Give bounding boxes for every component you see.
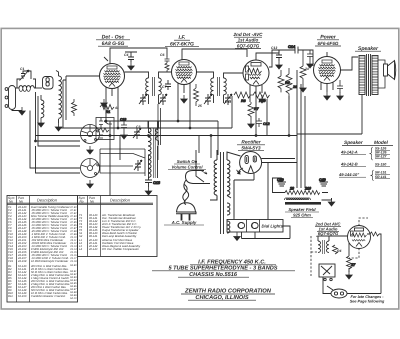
svg-text:2nd Det -AVC: 2nd Det -AVC [232, 32, 263, 37]
svg-text:R11: R11 [8, 295, 13, 298]
ground at wafer S1A [87, 146, 93, 154]
T4 core [367, 54, 371, 96]
capacitor C6 with resistor at T1 top [165, 57, 170, 72]
wire bus from input to switch wafers [36, 92, 81, 141]
cap C13 with ground [276, 50, 282, 61]
ground below dial light box [234, 233, 240, 241]
trimmer cap C8 [134, 160, 142, 171]
inset resistor vertical [333, 245, 338, 254]
inset tube internals [355, 228, 364, 231]
resistor R5 vertical [278, 70, 291, 92]
ground below terminal strip [19, 107, 25, 115]
svg-text:925 Ohm: 925 Ohm [293, 213, 311, 218]
svg-text:23-18: 23-18 [69, 260, 77, 263]
wire bus 3 [36, 146, 81, 173]
oscillator coil L5 tall [148, 121, 155, 178]
T3 core [221, 152, 224, 234]
capacitor C4 with ground [125, 52, 137, 62]
socket key slot right [253, 156, 256, 162]
label SPEAKER [355, 46, 381, 52]
wire C14 to V4 grid [298, 50, 313, 66]
tube V1 internals [104, 66, 121, 87]
tube V2 6K7 envelope [172, 60, 197, 85]
wire V2 pins to bus [178, 91, 190, 128]
wire L3 to tube grid [63, 76, 66, 128]
T1 secondary coil [159, 78, 162, 95]
osc padder coil L4 [41, 100, 44, 118]
svg-text:28: 28 [292, 85, 297, 89]
svg-text:S2: S2 [79, 235, 83, 238]
bus from filters to speaker [297, 133, 362, 135]
RF coil L3 (tall winding) [59, 76, 62, 118]
parts table rows left [8, 206, 70, 298]
label FOR LATE CHANGES [350, 295, 385, 304]
tube V4 6F6 envelope [314, 57, 341, 84]
speaker field choke [285, 198, 311, 200]
wire bus 4 [30, 111, 80, 169]
shielded coil L2 [43, 77, 54, 90]
svg-text:64-10: 64-10 [70, 297, 77, 300]
svg-text:16 MFD Electrolytic Condenser: 16 MFD Electrolytic Condenser [31, 260, 68, 263]
tube V4 internals [319, 60, 336, 81]
inset dashed wires [311, 218, 368, 276]
svg-text:C3: C3 [136, 125, 140, 129]
small caps block (det components) [96, 118, 114, 140]
wire junction dots [35, 140, 37, 142]
bus y=121 [104, 120, 218, 122]
wire coil loop up [17, 79, 36, 88]
svg-text:210: 210 [304, 187, 311, 191]
switch wafer S1A [81, 125, 100, 144]
svg-text:Candohm Resistor 3 Section: Candohm Resistor 3 Section [31, 295, 66, 298]
resistor R9 vertical [300, 52, 306, 84]
inset solid wires [342, 236, 381, 294]
svg-text:63-90: 63-90 [70, 264, 77, 267]
cathode resistor with cap at V4 [337, 80, 343, 93]
resistor R10 horizontal [253, 92, 270, 98]
label SPEAKER FIELD 925 OHM [285, 207, 319, 218]
svg-text:See Page following: See Page following [350, 300, 385, 304]
svg-text:24: 24 [304, 67, 309, 71]
T3 5V winding [227, 203, 230, 215]
capacitor C18 [145, 176, 161, 187]
T1 wires [125, 72, 149, 78]
svg-text:C18: C18 [153, 181, 161, 185]
L5 core [154, 128, 156, 178]
svg-text:R4: R4 [337, 249, 341, 253]
ground below V1 cathode [101, 99, 107, 107]
terminal A [5, 88, 8, 91]
antenna coil L1 [19, 86, 34, 88]
svg-text:5W4-5Y3: 5W4-5Y3 [241, 146, 261, 151]
resistor R7 vertical [248, 104, 254, 116]
label POWER 6F6-6F6G [315, 35, 341, 47]
resistor R6 horizontal [234, 92, 270, 127]
verticals to transformer [211, 121, 218, 158]
svg-text:L4: L4 [79, 248, 82, 251]
AVC bus y=128 [60, 127, 232, 129]
ground below R9 [300, 84, 306, 92]
column lines left group [17, 196, 30, 303]
T2 secondary coil [224, 78, 227, 95]
field wires [273, 178, 332, 200]
svg-text:1st Audio: 1st Audio [238, 38, 259, 43]
svg-text:Off. Osc. Padder Compensator: Off. Osc. Padder Compensator [102, 248, 139, 251]
svg-text:49-144-10": 49-144-10" [338, 172, 359, 177]
capacitor C10 with ground [120, 118, 127, 132]
svg-text:No: No [9, 200, 13, 204]
cap C12 [256, 118, 262, 127]
inset switch box [319, 264, 335, 281]
svg-text:C14: C14 [288, 45, 296, 49]
T3 primary winding [214, 160, 217, 195]
ground below V2 [181, 95, 187, 103]
svg-text:C19: C19 [8, 260, 13, 263]
svg-text:C19: C19 [277, 178, 284, 182]
svg-text:C11: C11 [225, 100, 231, 104]
wire rectifier to dial lights [234, 163, 268, 220]
wire V3 top to C13 [256, 50, 279, 60]
dial light box [227, 220, 283, 233]
T2 primary coil [211, 78, 214, 95]
label SWITCH ON VOLUME CONTROL [168, 159, 207, 174]
inset tube V3a envelope [348, 226, 382, 289]
variable capacitor C1 [21, 71, 31, 79]
ground right of field [328, 198, 334, 206]
svg-text:63-150: 63-150 [18, 295, 27, 298]
ground below V3 [259, 95, 265, 103]
svg-text:27: 27 [350, 263, 356, 267]
tube V2 pins [178, 49, 247, 106]
wires from socket [234, 159, 297, 218]
svg-text:20-143: 20-143 [88, 248, 98, 251]
dial lamp 1 [238, 222, 244, 228]
svg-text:49-142-B: 49-142-B [340, 162, 358, 167]
switch wafer S1B [81, 159, 100, 178]
svg-text:C1: C1 [20, 67, 24, 71]
T3 6V winding [227, 221, 230, 233]
svg-text:Speaker: Speaker [344, 140, 364, 146]
wire osc coils to bus [149, 121, 158, 178]
bottom verticals [110, 121, 120, 196]
wire V3 plate up to C14 [269, 50, 295, 67]
parts table rows right [79, 214, 141, 251]
inset dial lamp oval [323, 277, 347, 298]
svg-text:Speaker Field: Speaker Field [288, 207, 316, 212]
T2 core [218, 77, 220, 96]
label DET-OSC 6A8 6-5G [96, 35, 130, 48]
trimmer cap on T2 [204, 94, 212, 105]
svg-text:25: 25 [197, 104, 202, 108]
T3 wires [210, 150, 241, 200]
ground below V4 [324, 92, 330, 100]
label I.F. 6K7-6K7G [165, 35, 199, 48]
trimmer cap C9 [133, 128, 141, 139]
T4 secondary winding [372, 57, 378, 92]
socket keyway triangle [248, 166, 253, 173]
svg-text:For late Changes -: For late Changes - [350, 295, 384, 299]
tube V3 pins [250, 85, 262, 95]
column lines right group [88, 196, 101, 257]
tube V1 pins [104, 48, 167, 99]
AC plug body [176, 203, 196, 221]
tube V4 pins and wires [321, 52, 358, 92]
svg-text:C13: C13 [271, 46, 277, 50]
wire V1 pins to bus [106, 95, 118, 128]
resistor R8 tall vertical [286, 68, 297, 100]
ground below L3 [55, 123, 61, 131]
tube V1 6A8 envelope [100, 64, 125, 89]
speaker cone [388, 61, 395, 80]
svg-text:Switch On: Switch On [177, 159, 198, 164]
resistor R3 right of V2 [194, 84, 199, 106]
socket key slot left [245, 156, 248, 164]
svg-text:C10: C10 [120, 118, 126, 122]
dial lamp 2 [252, 222, 258, 228]
svg-text:Volume Control: Volume Control [171, 165, 203, 170]
B+ bus horizontal [36, 135, 298, 137]
antenna terminal strip [9, 86, 16, 110]
svg-text:41: 41 [114, 106, 119, 110]
coupling capacitor C14 [295, 47, 298, 54]
T1 core [153, 77, 155, 96]
svg-text:Description: Description [37, 198, 58, 203]
small component value labels [20, 46, 341, 253]
svg-text:49-142-A: 49-142-A [340, 150, 358, 155]
vertical x=288 [288, 96, 290, 136]
tube V3 internals [246, 63, 262, 85]
rectifier socket V5 [234, 152, 297, 218]
speaker wires [378, 60, 385, 88]
trimmer cap on T1 [139, 94, 147, 105]
terminal D [5, 105, 8, 108]
label 2ND DET AVC 1ST AUDIO 6Q7-6Q7G (inset) [315, 222, 342, 237]
svg-text:No: No [80, 200, 84, 204]
plug prongs [182, 214, 190, 221]
wire L3 bottom [58, 119, 60, 123]
svg-text:6Q7-6Q7G: 6Q7-6Q7G [318, 231, 339, 236]
grid cap wire on top [110, 48, 167, 64]
transformer bottom wire [361, 95, 363, 135]
right group box [78, 196, 158, 257]
parts table row price column left [69, 206, 77, 300]
parts table headers [8, 196, 131, 204]
speaker field core bar [285, 202, 321, 205]
T3 HV secondary [227, 160, 230, 195]
speaker driver [384, 64, 388, 76]
ground at wafer S1B [87, 180, 93, 188]
wire L3 to V1 grid [63, 76, 100, 80]
long verticals right side [297, 70, 305, 188]
svg-text:5R-141: 5R-141 [375, 175, 387, 179]
wire to band coil [34, 87, 42, 89]
svg-text:No: No [19, 200, 23, 204]
svg-text:Dial Lights: Dial Lights [262, 224, 284, 229]
wire V3 pin to bus [250, 93, 256, 136]
wires around R7 [250, 102, 252, 120]
junction dots [105, 120, 107, 122]
T1 primary coil [146, 78, 149, 95]
ground below L4 [38, 119, 44, 127]
ground below R7 [248, 120, 254, 128]
filter cap C19 left (electrolytic) [278, 178, 287, 186]
svg-text:5R-127: 5R-127 [375, 155, 388, 159]
svg-text:C19: C19 [319, 178, 326, 182]
svg-text:C12: C12 [263, 122, 270, 126]
resistor R2 vertical left [72, 99, 77, 116]
filter cap C19 right (electrolytic) [320, 178, 329, 186]
tube V2 internals [176, 62, 193, 83]
svg-text:85-141: 85-141 [89, 235, 98, 238]
svg-text:C6: C6 [160, 53, 164, 57]
output transformer T4 primary winding [359, 57, 365, 92]
svg-text:28: 28 [289, 187, 294, 191]
AC cord twisted pair [183, 171, 210, 205]
vertical x=199 [198, 136, 200, 154]
label 2ND DET-AVC 1ST AUDIO 6Q7-6Q7G [232, 32, 263, 49]
svg-text:5S-150: 5S-150 [375, 163, 386, 167]
resistor R1 below V1 [100, 105, 114, 115]
resistor right of inset tube [370, 232, 379, 236]
svg-text:6F6-6F6G: 6F6-6F6G [318, 41, 339, 46]
capacitor C17 with ground at V4 grid [307, 50, 313, 60]
tube V3 6Q7 envelope [243, 60, 269, 86]
vertical x=267 [266, 99, 268, 136]
wire bus 2 [38, 96, 80, 146]
svg-text:A.C. Supply: A.C. Supply [171, 220, 197, 225]
wire strip down to ground [12, 110, 22, 111]
oscillator coil L6 [156, 121, 159, 145]
trimmer cap on T1 sec [159, 94, 167, 105]
resistor R28-R210 long zigzag [285, 191, 320, 195]
svg-text:22-158: 22-158 [17, 260, 27, 263]
svg-text:Description: Description [110, 198, 131, 203]
svg-text:C4: C4 [124, 53, 128, 57]
header separator double line [7, 203, 153, 204]
svg-text:Dial Lamp Bracket Assembly: Dial Lamp Bracket Assembly [102, 235, 137, 238]
svg-text:No: No [90, 200, 94, 204]
inset ground [346, 271, 352, 279]
switch tap wires to osc coil [100, 104, 161, 176]
arrow pointing to socket [237, 168, 243, 173]
label RECTIFIER 5W4-5Y3 [237, 140, 265, 151]
T2 wires [197, 72, 214, 78]
trimmer cap on T2 sec [224, 94, 232, 105]
wire dial light bottom [242, 226, 291, 239]
vertical x=232 [231, 96, 233, 128]
svg-text:R10: R10 [259, 99, 266, 103]
wire antenna to coil [16, 87, 20, 89]
svg-text:ZENITH RADIO CORPORATION: ZENITH RADIO CORPORATION [184, 288, 272, 295]
svg-text:Model: Model [374, 140, 389, 146]
cap C7 [165, 80, 171, 90]
terminal G [5, 96, 8, 99]
inset resistor R27 [347, 256, 352, 269]
label A.C. SUPPLY [164, 220, 204, 225]
svg-text:6Q7-6Q7G: 6Q7-6Q7G [237, 43, 260, 48]
parts table outer [7, 196, 78, 303]
inset IF transformer coils [318, 236, 356, 272]
